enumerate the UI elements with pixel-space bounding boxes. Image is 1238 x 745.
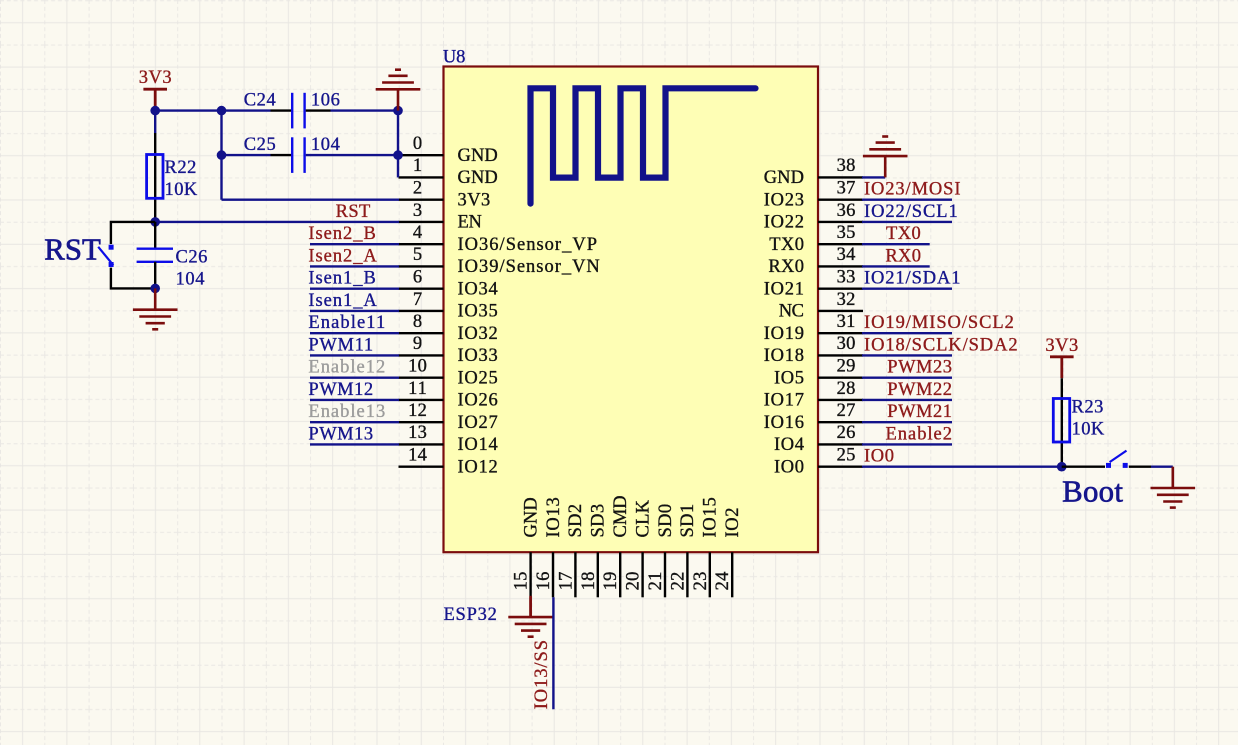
svg-text:IO18/SCLK/SDA2: IO18/SCLK/SDA2 [864, 335, 1018, 355]
ground symbol below C26 [154, 288, 157, 309]
svg-text:IO32: IO32 [458, 324, 498, 344]
U8 bottom pin 16 (IO13) stub [552, 552, 554, 597]
svg-text:11: 11 [408, 379, 427, 399]
U8 left pin 3 (EN) stub [399, 221, 444, 223]
svg-text:15: 15 [512, 572, 532, 591]
ground symbol below pin 15 [529, 596, 532, 617]
svg-text:4: 4 [413, 223, 422, 243]
svg-text:R22: R22 [165, 158, 197, 178]
U8 right pin 27 (IO16) stub [818, 421, 863, 423]
U8 left pin 0 (GND) stub [399, 154, 444, 156]
svg-text:3V3: 3V3 [139, 68, 172, 88]
svg-text:IO19: IO19 [764, 324, 804, 344]
wire net Enable2 from pin [862, 443, 952, 445]
wire net IO0 from pin 25 to R23/Boot [862, 466, 1062, 468]
svg-text:GND: GND [458, 168, 498, 188]
wire RST net to pin 3 EN [155, 221, 399, 223]
svg-text:SD2: SD2 [566, 504, 586, 538]
svg-text:32: 32 [837, 290, 856, 310]
U8 left pin 1 (GND) stub [399, 176, 444, 178]
U8 bottom pin 22 (SD1) stub [686, 552, 688, 597]
U8 right pin 26 (IO4) stub [818, 443, 863, 445]
svg-text:IO21: IO21 [764, 279, 804, 299]
wire net IO23/MOSI from pin [862, 198, 952, 200]
svg-text:104: 104 [311, 135, 340, 155]
svg-text:CMD: CMD [611, 495, 631, 537]
wire net PWM23 from pin [862, 377, 952, 379]
svg-text:PWM11: PWM11 [308, 335, 373, 355]
svg-text:24: 24 [713, 572, 733, 591]
U8 bottom pin 20 (CLK) stub [641, 552, 643, 597]
wire pin 15 GND down to ground [529, 597, 532, 617]
svg-text:IO2: IO2 [723, 508, 743, 538]
ground symbol above C24/C25 [397, 89, 400, 110]
svg-text:34: 34 [837, 245, 856, 265]
svg-text:CLK: CLK [633, 499, 653, 537]
svg-text:R23: R23 [1072, 398, 1104, 418]
svg-text:20: 20 [624, 572, 644, 591]
wire 3V3 to pin 2 [222, 198, 400, 200]
U8 left pin 2 (3V3) stub [399, 198, 444, 200]
node junction EN/RST [150, 217, 160, 227]
svg-text:19: 19 [601, 572, 621, 591]
U8 right pin 30 (IO18) stub [818, 354, 863, 356]
power port 3V3 (left) [154, 89, 157, 110]
U8 left pin 10 (IO25) stub [399, 377, 444, 379]
svg-text:IO35: IO35 [458, 302, 498, 322]
antenna meander graphic inside U8 [531, 88, 756, 203]
U8 right pin 34 (RX0) stub [818, 265, 863, 267]
U8 left pin 7 (IO35) stub [399, 310, 444, 312]
wire EN node to switch top [111, 222, 155, 244]
U8 right pin 33 (IO21) stub [818, 288, 863, 290]
wire net Enable13 to pin 12 [310, 421, 399, 423]
svg-text:IO15: IO15 [701, 497, 721, 537]
wire C24 right [306, 109, 331, 111]
svg-text:C25: C25 [244, 135, 276, 155]
resistor R23 body [1053, 399, 1069, 443]
svg-text:EN: EN [458, 213, 482, 233]
U8 right pin 38 (GND) stub [818, 176, 863, 178]
svg-text:IO21/SDA1: IO21/SDA1 [864, 269, 961, 289]
svg-text:23: 23 [691, 572, 711, 591]
svg-text:ESP32: ESP32 [444, 605, 497, 625]
svg-text:0: 0 [413, 134, 422, 154]
svg-text:NC: NC [779, 302, 804, 322]
wire net Isen1_A to pin 7 [310, 310, 399, 312]
wire net IO18/SCLK/SDA2 from pin [862, 354, 952, 356]
wire vertical C24 right down to pin0 row [397, 111, 399, 156]
wire net PWM13 to pin 13 [310, 443, 399, 445]
svg-text:IO18: IO18 [764, 346, 804, 366]
node junction C24 right / ground [393, 106, 403, 116]
ground symbol at pin 38 [884, 156, 887, 177]
svg-text:Isen2_A: Isen2_A [308, 246, 377, 266]
svg-text:36: 36 [837, 201, 856, 221]
wire switch bottom to C26 bottom node [111, 268, 155, 289]
wire gnd vertical pin0 to pin1 [397, 155, 399, 177]
capacitor C24 plates [291, 93, 293, 129]
svg-text:28: 28 [837, 379, 856, 399]
U8 left pin 11 (IO26) stub [399, 399, 444, 401]
wire pin 38 GND to ground [862, 176, 885, 178]
node junction 3V3/R22 [150, 106, 160, 116]
capacitor C26 plates [137, 247, 173, 249]
wire net Enable11 to pin 8 [310, 332, 399, 334]
svg-text:IO25: IO25 [458, 368, 498, 388]
wire 3V3 to R23 [1061, 378, 1063, 467]
wire net IO21/SDA1 from pin [862, 288, 952, 290]
svg-text:1: 1 [413, 156, 422, 176]
svg-text:PWM23: PWM23 [887, 358, 952, 378]
U8 right pin 31 (IO19) stub [818, 332, 863, 334]
svg-text:10K: 10K [165, 180, 198, 200]
svg-text:IO12: IO12 [458, 457, 498, 477]
svg-text:RX0: RX0 [768, 257, 804, 277]
svg-text:Boot: Boot [1062, 475, 1123, 509]
svg-text:IO23: IO23 [764, 190, 804, 210]
U8 left pin 8 (IO32) stub [399, 332, 444, 334]
U8 left pin 12 (IO27) stub [399, 421, 444, 423]
svg-text:12: 12 [408, 401, 427, 421]
wire net PWM12 to pin 11 [310, 399, 399, 401]
svg-text:2: 2 [413, 179, 422, 199]
U8 bottom pin 18 (SD3) stub [597, 552, 599, 597]
wire net IO19/MISO/SCL2 from pin [862, 332, 952, 334]
wire C24-C25 left vertical to 3V3 pin2 [220, 111, 222, 200]
wire EN node down to C26 [154, 222, 156, 249]
svg-text:IO26: IO26 [458, 391, 498, 411]
wire net TX0 from pin [862, 243, 930, 245]
svg-text:PWM21: PWM21 [887, 402, 952, 422]
svg-text:IO34: IO34 [458, 279, 498, 299]
svg-text:GND: GND [521, 497, 541, 537]
wire net PWM22 from pin [862, 399, 952, 401]
node junction C24 left [217, 106, 227, 116]
svg-text:27: 27 [837, 401, 856, 421]
svg-text:17: 17 [556, 572, 576, 591]
wire IO0 node to Boot switch [1062, 466, 1105, 468]
svg-text:SD1: SD1 [678, 504, 698, 538]
wire net Isen2_A to pin 5 [310, 265, 399, 267]
svg-text:13: 13 [408, 423, 427, 443]
svg-text:106: 106 [311, 91, 340, 111]
U8 left pin 5 (IO39/Sensor_VN) stub [399, 265, 444, 267]
svg-text:RX0: RX0 [885, 246, 921, 266]
svg-text:PWM22: PWM22 [887, 380, 952, 400]
svg-text:Enable2: Enable2 [886, 424, 953, 444]
svg-text:U8: U8 [443, 48, 466, 68]
svg-text:SD3: SD3 [589, 504, 609, 538]
svg-text:SD0: SD0 [656, 504, 676, 538]
svg-text:PWM12: PWM12 [308, 380, 373, 400]
svg-text:33: 33 [837, 268, 856, 288]
U8 right pin 32 (NC) stub [818, 310, 863, 312]
svg-text:IO23/MOSI: IO23/MOSI [864, 180, 961, 200]
wire C25 left [222, 154, 271, 156]
node junction IO0/R23/Boot [1057, 462, 1067, 472]
wire net IO22/SCL1 from pin [862, 221, 952, 223]
svg-text:IO5: IO5 [774, 368, 804, 388]
wire Boot switch to ground [1129, 466, 1151, 468]
svg-text:22: 22 [668, 572, 688, 591]
svg-text:Isen1_B: Isen1_B [308, 269, 375, 289]
svg-text:9: 9 [413, 334, 422, 354]
svg-text:104: 104 [176, 270, 205, 290]
svg-text:IO13/SS: IO13/SS [532, 640, 552, 709]
U8 left pin 6 (IO34) stub [399, 288, 444, 290]
U8 bottom pin 21 (SD0) stub [664, 552, 666, 597]
svg-text:GND: GND [764, 168, 804, 188]
U8 bottom pin 19 (CMD) stub [619, 552, 621, 597]
svg-text:RST: RST [44, 233, 101, 267]
svg-text:5: 5 [413, 245, 422, 265]
U8 left pin 4 (IO36/Sensor_VP) stub [399, 243, 444, 245]
svg-text:8: 8 [413, 312, 422, 332]
switch Boot (pushbutton) [1106, 463, 1111, 468]
svg-text:IO27: IO27 [458, 413, 498, 433]
resistor R22 body [147, 155, 163, 199]
svg-text:RST: RST [336, 202, 371, 222]
svg-text:IO39/Sensor_VN: IO39/Sensor_VN [458, 257, 600, 277]
svg-text:TX0: TX0 [769, 235, 804, 255]
svg-text:26: 26 [837, 423, 856, 443]
svg-text:29: 29 [837, 357, 856, 377]
svg-text:21: 21 [646, 572, 666, 591]
svg-text:IO13: IO13 [544, 497, 564, 537]
U8 right pin 29 (IO5) stub [818, 377, 863, 379]
U8 bottom pin 24 (IO2) stub [731, 552, 733, 597]
U8 left pin 13 (IO14) stub [399, 443, 444, 445]
wire net PWM21 from pin [862, 421, 952, 423]
svg-text:IO22/SCL1: IO22/SCL1 [864, 202, 958, 222]
wire net Isen2_B to pin 4 [310, 243, 399, 245]
svg-text:16: 16 [534, 572, 554, 591]
power port 3V3 (right) [1060, 357, 1063, 378]
svg-text:18: 18 [579, 572, 599, 591]
node junction C25 left [217, 150, 227, 160]
wire net PWM11 to pin 9 [310, 354, 399, 356]
IC U8 ESP32 module body [444, 67, 819, 553]
ground symbol at Boot [1172, 467, 1175, 488]
wire C26 to ground node [154, 262, 156, 289]
U8 left pin 14 (IO12) stub [399, 466, 444, 468]
svg-text:Isen1_A: Isen1_A [308, 291, 377, 311]
U8 right pin 36 (IO22) stub [818, 221, 863, 223]
svg-text:3V3: 3V3 [458, 190, 491, 210]
svg-text:IO33: IO33 [458, 346, 498, 366]
svg-text:37: 37 [837, 179, 856, 199]
svg-text:14: 14 [408, 446, 427, 466]
svg-text:Enable11: Enable11 [308, 313, 385, 333]
svg-text:IO17: IO17 [764, 391, 804, 411]
U8 right pin 28 (IO17) stub [818, 399, 863, 401]
svg-text:7: 7 [413, 290, 422, 310]
svg-text:C24: C24 [244, 91, 276, 111]
capacitor C25 plates [291, 137, 293, 173]
svg-text:38: 38 [837, 156, 856, 176]
svg-text:GND: GND [458, 146, 498, 166]
node junction C25 right / GND pins [393, 150, 403, 160]
svg-text:3V3: 3V3 [1045, 336, 1078, 356]
svg-text:31: 31 [837, 312, 856, 332]
wire C25 right to pin 0 [306, 154, 399, 156]
svg-text:35: 35 [837, 223, 856, 243]
svg-text:IO16: IO16 [764, 413, 804, 433]
wire net Isen1_B to pin 6 [310, 288, 399, 290]
svg-text:IO0: IO0 [774, 457, 804, 477]
U8 right pin 35 (TX0) stub [818, 243, 863, 245]
svg-text:Isen2_B: Isen2_B [308, 224, 375, 244]
svg-text:IO14: IO14 [458, 435, 498, 455]
svg-text:IO4: IO4 [774, 435, 804, 455]
wire net RX0 from pin [862, 265, 930, 267]
svg-text:3: 3 [413, 201, 422, 221]
svg-text:IO22: IO22 [764, 213, 804, 233]
svg-text:10: 10 [408, 357, 427, 377]
switch RST (pushbutton) [109, 245, 114, 250]
U8 bottom pin 17 (SD2) stub [574, 552, 576, 597]
svg-text:Enable13: Enable13 [308, 402, 385, 422]
svg-text:PWM13: PWM13 [308, 424, 373, 444]
svg-text:6: 6 [413, 268, 422, 288]
svg-text:IO36/Sensor_VP: IO36/Sensor_VP [458, 235, 598, 255]
wire 3V3 junction to C24 [155, 109, 221, 111]
U8 bottom pin 23 (IO15) stub [709, 552, 711, 597]
wire C24 left [222, 109, 271, 111]
node junction C26/ground [150, 284, 160, 294]
U8 right pin 37 (IO23) stub [818, 198, 863, 200]
svg-text:TX0: TX0 [886, 224, 921, 244]
svg-text:C26: C26 [176, 248, 208, 268]
U8 bottom pin 15 (GND) stub [529, 552, 531, 597]
wire net Enable12 to pin 10 [310, 377, 399, 379]
wire net IO13/SS from pin 16 [552, 597, 554, 709]
svg-text:Enable12: Enable12 [308, 358, 385, 378]
svg-text:IO19/MISO/SCL2: IO19/MISO/SCL2 [864, 313, 1014, 333]
svg-text:IO0: IO0 [864, 447, 894, 467]
svg-text:30: 30 [837, 334, 856, 354]
U8 left pin 9 (IO33) stub [399, 354, 444, 356]
svg-text:10K: 10K [1072, 420, 1105, 440]
U8 right pin 25 (IO0) stub [818, 466, 863, 468]
wire 3V3 down to R22 [154, 111, 156, 133]
svg-text:25: 25 [837, 446, 856, 466]
